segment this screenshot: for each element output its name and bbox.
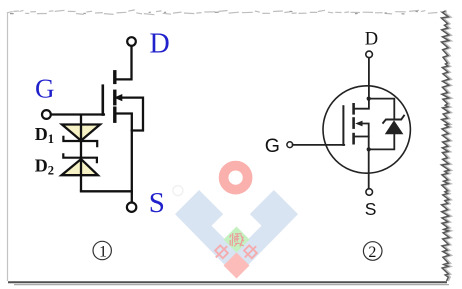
svg-text:G: G [265,135,280,157]
wire gate lead (circuit 2) [293,144,345,146]
node S terminal circle (circuit 2) [366,189,373,196]
svg-text:S: S [149,187,165,219]
watermark pink diamond [224,253,250,279]
watermark logo [173,166,298,279]
frame: bottom edge [8,281,447,283]
junction dot source [367,147,371,151]
wire source stub (circuit 2) [355,136,369,138]
mosfet Q2 channel body segment [352,119,355,128]
node S terminal circle (circuit 1) [127,203,136,212]
diode D2 triangle [62,159,98,175]
wire source lead (circuit 1) [117,114,132,203]
wire drain lead (circuit 1) [116,46,132,79]
wire body diode drain side (circuit 2) [369,99,395,118]
mosfet Q1 body arrow [114,94,122,101]
wire body-to-source connection (circuit 2) [361,124,369,150]
wire body-to-source connection (circuit 1) [121,98,143,131]
svg-text:D: D [365,30,378,50]
mosfet Q1 channel body segment [113,91,116,103]
frame: top torn edge [8,10,444,15]
figure number 2 circled [363,242,382,261]
wire zener chain to source (circuit 1) [81,190,132,192]
mosfet Q2 gate bar [342,106,344,145]
diode D1 zener bar [63,136,97,147]
diode D2 zener bar [63,153,97,163]
node D terminal circle (circuit 2) [366,51,373,58]
mosfet Q1 gate bar [102,86,105,115]
svg-text:1: 1 [99,243,107,260]
mosfet Q1 channel source segment [113,108,116,121]
mosfet Q2 body arrow [355,121,362,127]
svg-text:S: S [365,199,377,219]
watermark zhong glyph right [241,242,260,261]
figure number 1 circled [93,241,111,259]
diode D1 triangle [62,125,100,141]
watermark blue V shape [175,190,298,277]
watermark faint ring [173,186,183,196]
junction dot drain [367,97,371,101]
frame: left edge [7,12,9,281]
mosfet Q1 channel drain segment [113,72,116,83]
mosfet symbol circuit 1 wires and terminals [42,37,143,212]
body zener diode triangle (circuit 2) [385,120,404,134]
node D terminal circle (circuit 1) [127,37,136,46]
body zener diode cathode bar (circuit 2) [383,116,404,123]
wire gate lead (circuit 1) [51,113,104,115]
wire body diode source side (circuit 2) [369,134,395,149]
svg-text:2: 2 [368,244,376,261]
node G terminal circle (circuit 1) [42,110,51,119]
wire zener chain vertical (circuit 1) [80,115,82,192]
wire drain lead (circuit 2) [355,58,369,109]
watermark red ring [224,166,248,190]
mosfet symbol circuit 2 wires and terminals [287,51,411,195]
mosfet Q2 channel source segment [352,134,355,143]
watermark wei glyph [230,233,244,246]
frame: right torn zigzag [443,11,451,281]
node G terminal circle (circuit 2) [287,142,293,148]
wire source lead (circuit 2) [368,149,370,188]
mosfet Q2 channel drain segment [352,104,355,113]
watermark zhong glyph left [212,242,231,261]
watermark green diamond [224,227,250,253]
mosfet Q2 envelope circle [323,86,410,173]
svg-text:G: G [35,74,55,104]
svg-text:D: D [150,29,170,60]
